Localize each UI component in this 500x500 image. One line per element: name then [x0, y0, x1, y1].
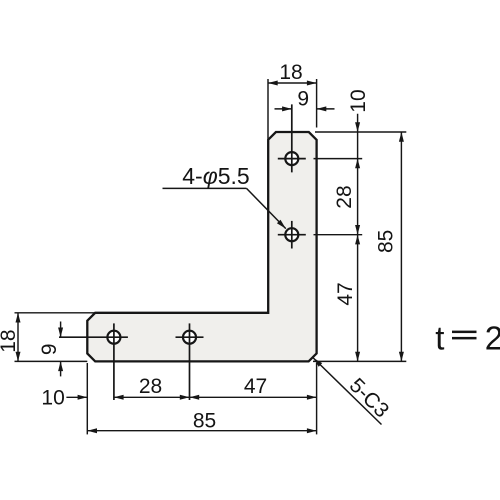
svg-text:4-φ5.5: 4-φ5.5 [182, 163, 249, 189]
label t=2 [435, 319, 500, 356]
svg-text:18: 18 [279, 61, 302, 84]
label 5-C3 with leader [313, 358, 393, 425]
dimension 9 top [275, 87, 335, 111]
dimension 18 left [0, 313, 95, 362]
dimension 85 bottom [87, 363, 316, 434]
hole V1 [278, 104, 306, 172]
dimension 10 bottom [41, 386, 87, 409]
svg-text:9: 9 [297, 87, 309, 110]
dimension 28 bottom [114, 375, 190, 400]
svg-text:28: 28 [333, 185, 356, 208]
bracket L-shape body [87, 132, 316, 361]
hole V2 [278, 221, 306, 249]
dimension 85 right [375, 132, 404, 361]
svg-text:2: 2 [485, 319, 500, 356]
svg-text:t: t [435, 319, 444, 356]
svg-text:47: 47 [334, 282, 357, 305]
vertical chain dimension line 10/28/47 [333, 89, 370, 361]
dimension 47 bottom [190, 375, 317, 400]
label 4-phi5.5 with leader [163, 163, 286, 229]
svg-text:28: 28 [139, 375, 162, 398]
svg-text:85: 85 [375, 230, 398, 253]
svg-text:47: 47 [244, 375, 267, 398]
svg-text:9: 9 [38, 343, 61, 355]
hole B2 [176, 323, 204, 400]
dimension 9 left [38, 322, 63, 377]
svg-text:10: 10 [347, 89, 370, 112]
dimension 18 top [268, 61, 317, 140]
hole B1 [59, 323, 128, 400]
svg-text:10: 10 [41, 386, 64, 409]
svg-text:85: 85 [193, 410, 216, 433]
svg-text:18: 18 [0, 329, 20, 352]
extension lines right side [313, 132, 406, 361]
